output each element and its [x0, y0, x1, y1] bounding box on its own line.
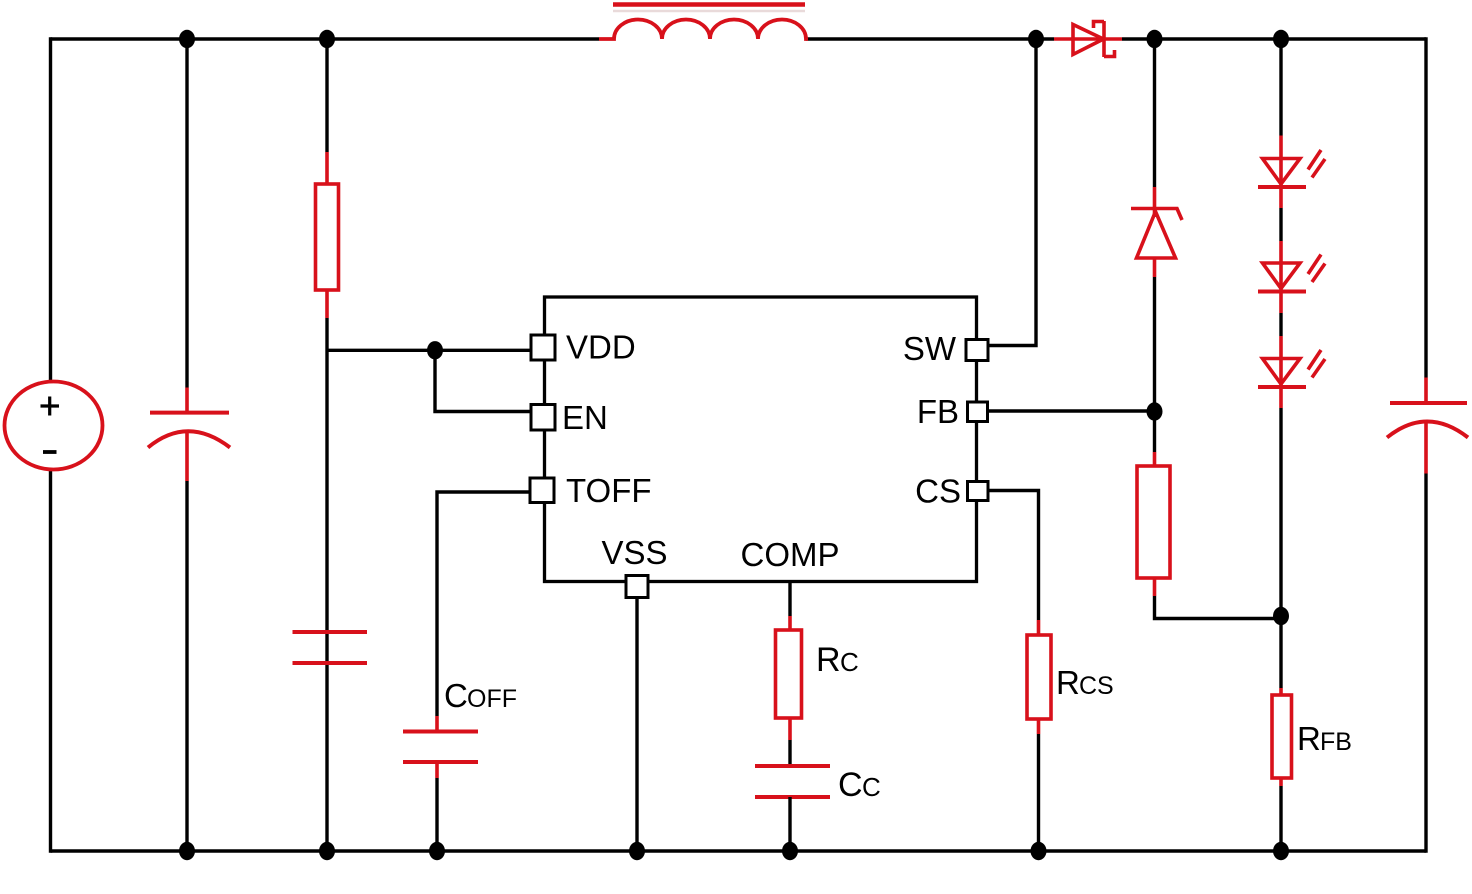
label CC — [838, 766, 881, 804]
label RC — [816, 641, 859, 679]
svg-text:R: R — [1297, 720, 1321, 757]
node top R1 — [319, 30, 335, 48]
pin VDD — [531, 335, 555, 360]
wire zener-FB-R2 — [1153, 277, 1156, 452]
node FB — [1147, 402, 1163, 420]
resistor RCS — [1027, 620, 1051, 734]
label COFF — [444, 677, 517, 714]
svg-text:FB: FB — [917, 393, 959, 430]
svg-text:CS: CS — [1079, 672, 1114, 700]
label RFB — [1297, 720, 1352, 757]
wire R2 to LED node — [1155, 596, 1282, 619]
pin EN — [531, 405, 555, 431]
wire SW net — [988, 39, 1036, 346]
node top LED — [1273, 30, 1289, 48]
node top zener — [1147, 30, 1163, 48]
wire RC-CC — [788, 740, 791, 766]
svg-text:VDD: VDD — [566, 329, 636, 366]
svg-text:SW: SW — [903, 330, 957, 367]
wire CS net upper — [988, 491, 1039, 621]
resistor RC — [776, 616, 802, 740]
node top C1 — [179, 30, 195, 48]
wire right rail lower — [1424, 474, 1427, 853]
pin TOFF — [530, 478, 554, 503]
wire left rail lower — [49, 470, 52, 853]
wire input cap branch upper — [185, 39, 188, 388]
svg-text:C: C — [840, 647, 859, 677]
wire VDD net — [327, 349, 531, 352]
capacitor CC — [755, 766, 830, 797]
diode D2 (zener) — [1131, 187, 1182, 277]
capacitor C2 — [293, 632, 368, 663]
svg-text:VSS: VSS — [601, 534, 667, 571]
LED D3 — [1258, 136, 1325, 209]
wire top rail left segment — [51, 37, 600, 40]
voltage source V1 — [5, 382, 103, 470]
wire TOFF net — [437, 492, 530, 716]
svg-text:C: C — [444, 677, 468, 714]
wire R1 branch lower (through C2) — [325, 318, 328, 851]
capacitor C3 (output, polarized) — [1387, 378, 1468, 474]
node top SW — [1028, 30, 1044, 48]
label RCS — [1056, 664, 1114, 701]
svg-text:R: R — [816, 641, 841, 679]
resistor R1 — [316, 152, 339, 318]
inductor L1 — [599, 5, 808, 40]
wire top rail right segment — [1122, 37, 1426, 40]
pin FB — [968, 402, 988, 422]
node bottom C2 — [319, 842, 335, 860]
svg-text:COMP: COMP — [741, 536, 840, 573]
wire input cap branch lower — [185, 481, 188, 851]
wire left rail upper — [49, 37, 52, 381]
wire LED branch top — [1279, 39, 1282, 136]
wire R1 branch upper — [325, 39, 328, 152]
node bottom RCS — [1031, 842, 1047, 860]
svg-text:OFF: OFF — [467, 685, 517, 713]
svg-text:TOFF: TOFF — [566, 472, 652, 509]
capacitor COFF — [403, 716, 478, 778]
svg-text:EN: EN — [562, 399, 608, 436]
diode D1 (schottky) — [1054, 21, 1122, 57]
LED D5 — [1258, 336, 1325, 408]
svg-text:C: C — [838, 766, 863, 804]
node LED-R2-RFB — [1273, 607, 1289, 625]
wire zener branch upper — [1153, 39, 1156, 187]
wire top rail middle segment — [806, 37, 1054, 40]
wire VSS net — [635, 597, 638, 851]
wire LED1-LED2 — [1279, 208, 1282, 241]
wire LED2-LED3 — [1279, 313, 1282, 336]
node VDD-EN — [427, 341, 443, 359]
wire CS net lower — [1037, 734, 1040, 851]
wire EN net — [435, 350, 531, 411]
node bottom COFF — [429, 842, 445, 860]
svg-text:C: C — [862, 772, 881, 802]
LED D4 — [1258, 241, 1325, 313]
wire bottom rail — [51, 849, 1427, 852]
wire FB net — [987, 409, 1155, 412]
pin SW — [966, 340, 988, 361]
IC U1 body — [545, 297, 977, 582]
svg-text:R: R — [1056, 664, 1080, 701]
node bottom CC — [782, 842, 798, 860]
wire RFB lower — [1279, 786, 1282, 851]
wire COFF lower — [435, 778, 438, 851]
pin CS — [968, 482, 989, 501]
wire right rail upper — [1424, 37, 1427, 377]
svg-text:FB: FB — [1320, 728, 1352, 756]
wire COMP net upper — [788, 583, 791, 616]
wire LED3 to node — [1279, 408, 1282, 688]
resistor R2 — [1137, 452, 1170, 596]
resistor RFB — [1272, 688, 1292, 786]
svg-text:CS: CS — [915, 473, 961, 510]
capacitor C1 (input, polarized) — [148, 388, 230, 482]
pin VSS — [626, 576, 648, 598]
wire CC lower — [788, 797, 791, 851]
node bottom VSS — [629, 842, 645, 860]
node bottom C1 — [179, 842, 195, 860]
node bottom RFB — [1273, 842, 1289, 860]
